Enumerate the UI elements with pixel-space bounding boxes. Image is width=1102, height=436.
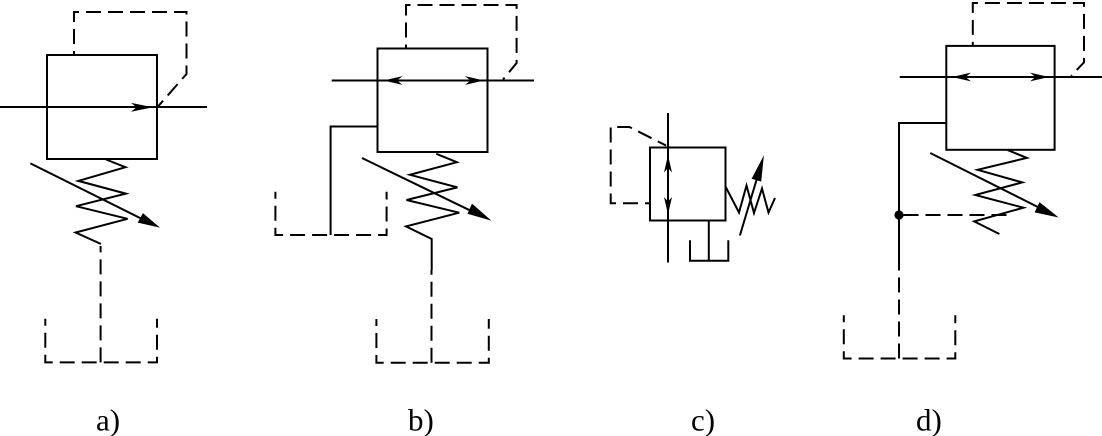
- pilot sense line D (dashed, dot to spring): [904, 214, 1009, 216]
- spring A: [76, 160, 128, 245]
- spring B: [406, 154, 459, 270]
- adjustment arrow C shaft: [740, 173, 759, 235]
- flow arrowhead C up: [664, 155, 672, 173]
- flow arrowhead A: [131, 103, 153, 112]
- junction dot D: [894, 210, 903, 219]
- tank B left (dashed): [275, 192, 386, 235]
- adjustment arrow B shaft: [362, 158, 475, 213]
- spring D: [974, 150, 1027, 234]
- tank A (dashed): [45, 319, 157, 363]
- adjustment arrow D head: [1035, 202, 1059, 217]
- pilot line C (dashed loop on left): [611, 127, 666, 203]
- svg-text:b): b): [408, 403, 434, 436]
- valve body B: [378, 49, 488, 153]
- tank D (dashed): [844, 315, 956, 358]
- pilot line A (dashed loop from box top to outlet): [74, 12, 187, 107]
- svg-text:d): d): [916, 403, 942, 436]
- flow path line A (inlet-outlet through line): [0, 106, 207, 108]
- flow arrowhead C down: [664, 197, 672, 215]
- pilot line B (dashed loop): [406, 5, 517, 80]
- flow arrowhead D left: [952, 73, 971, 82]
- pilot line D (dashed loop): [973, 3, 1084, 76]
- drain line D (dashed): [898, 267, 900, 359]
- adjustment arrow A shaft: [30, 163, 146, 221]
- tank C (solid): [690, 240, 728, 261]
- spring C: [726, 186, 775, 214]
- adjustment arrow C head: [752, 155, 764, 181]
- adjustment arrow A head: [138, 213, 160, 228]
- drain line B (dashed): [431, 270, 433, 363]
- svg-text:a): a): [96, 403, 120, 436]
- adjustment arrow B head: [468, 204, 492, 221]
- valve body C: [650, 148, 726, 221]
- valve body A: [47, 55, 157, 159]
- flow path line B: [332, 80, 534, 82]
- tank B bottom (dashed): [376, 319, 488, 363]
- drain branch D (solid, from box left down to junction): [899, 123, 946, 267]
- valve body D: [946, 46, 1054, 150]
- flow arrowhead D right: [1030, 73, 1049, 82]
- drain branch B (solid, to left tank): [331, 127, 378, 236]
- drain line A (dashed): [100, 246, 102, 362]
- drain stub C: [708, 221, 710, 261]
- svg-text:c): c): [691, 403, 715, 436]
- flow path line D: [900, 76, 1102, 78]
- flow path line C (vertical): [667, 113, 669, 263]
- flow arrowhead B right: [465, 76, 484, 85]
- adjustment arrow D shaft: [930, 153, 1043, 210]
- flow arrowhead B left: [384, 76, 403, 85]
